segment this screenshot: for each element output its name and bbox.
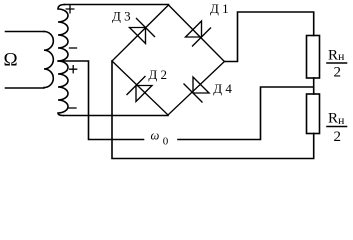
- svg-text:2: 2: [334, 129, 342, 145]
- svg-text:R: R: [328, 111, 338, 127]
- svg-text:Д 2: Д 2: [148, 67, 167, 82]
- svg-text:ω: ω: [151, 129, 160, 143]
- svg-text:Д 1: Д 1: [210, 1, 229, 16]
- svg-text:0: 0: [163, 136, 169, 148]
- svg-text:Д 3: Д 3: [112, 9, 131, 24]
- svg-text:н: н: [338, 113, 345, 127]
- svg-text:Д 4: Д 4: [213, 81, 232, 96]
- svg-text:2: 2: [334, 65, 342, 81]
- svg-text:н: н: [338, 49, 345, 63]
- svg-text:R: R: [328, 48, 338, 64]
- svg-text:Ω: Ω: [4, 50, 18, 71]
